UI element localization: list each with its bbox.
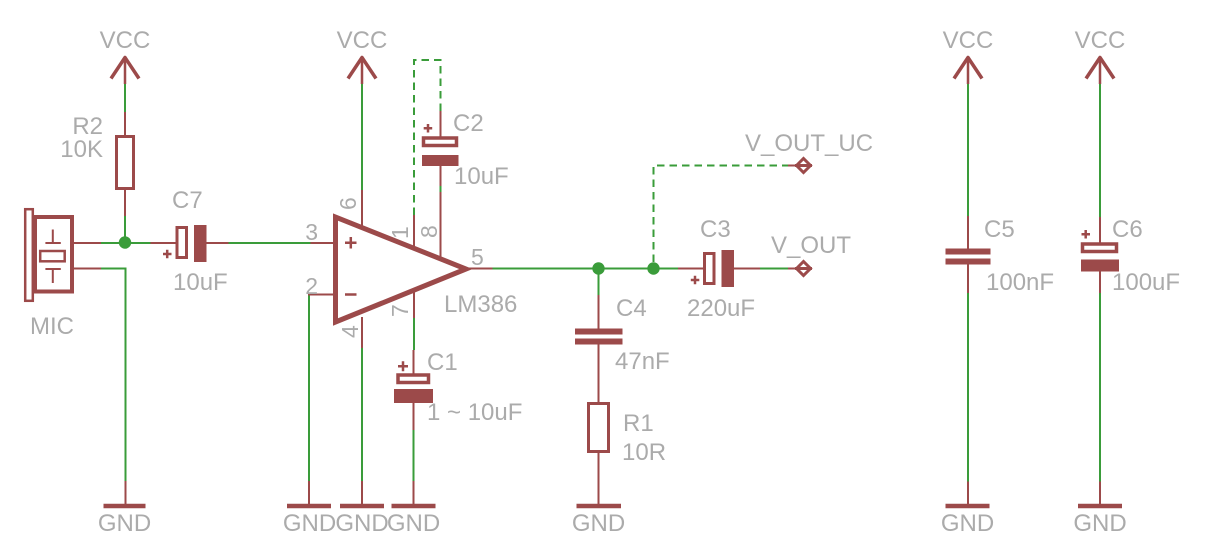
wire C1 to GND xyxy=(413,430,415,481)
capacitor C7 (polarized, horizontal) xyxy=(151,225,229,262)
node junction A (output / C4) xyxy=(592,262,604,274)
power VCC symbol 2 (above opamp) xyxy=(337,27,388,84)
svg-text:8: 8 xyxy=(416,225,442,238)
svg-text:GND: GND xyxy=(572,510,625,537)
wire pin7 to C1 xyxy=(413,318,415,350)
svg-text:MIC: MIC xyxy=(30,313,74,340)
pin 5 output stub xyxy=(468,268,493,270)
wire pin4 to GND xyxy=(361,348,363,481)
wire pin5 to junction A xyxy=(493,268,599,270)
svg-text:C7: C7 xyxy=(172,187,203,214)
svg-text:VCC: VCC xyxy=(1075,27,1126,54)
ground GND (pin4) xyxy=(335,481,388,537)
wire C7 to opamp pin3 xyxy=(229,242,311,244)
svg-text:V_OUT_UC: V_OUT_UC xyxy=(745,130,873,157)
svg-text:C1: C1 xyxy=(427,349,458,376)
svg-text:7: 7 xyxy=(387,304,413,317)
svg-text:VCC: VCC xyxy=(337,27,388,54)
pin 4 stub xyxy=(361,317,363,348)
svg-text:GND: GND xyxy=(387,510,440,537)
node junction R2/MIC/C7 xyxy=(119,236,131,248)
resistor R2 xyxy=(117,112,134,216)
power VCC symbol 3 (C5 branch) xyxy=(943,27,994,84)
ground GND (pin2) xyxy=(283,481,336,537)
svg-text:10R: 10R xyxy=(622,439,666,466)
svg-text:C3: C3 xyxy=(700,216,731,243)
pin symbol V_OUT_UC xyxy=(788,159,812,173)
resistor R1 xyxy=(589,404,609,505)
wire MIC pin2 down to GND xyxy=(101,269,126,482)
svg-text:10K: 10K xyxy=(60,136,103,163)
wire junction to C7 xyxy=(125,242,151,244)
svg-text:VCC: VCC xyxy=(943,27,994,54)
wire junction A to junction B xyxy=(599,268,654,270)
wire VCC1 to R2 xyxy=(124,84,126,112)
capacitor C4 (non-polarized, vertical) xyxy=(575,295,623,402)
svg-text:5: 5 xyxy=(471,244,484,270)
wire C2 to pin8 xyxy=(440,186,442,192)
svg-text:C5: C5 xyxy=(984,216,1015,243)
svg-text:V_OUT: V_OUT xyxy=(771,232,851,259)
ground GND (C5) xyxy=(941,482,994,538)
ground GND (R1) xyxy=(572,506,625,537)
ground GND (mic branch) xyxy=(98,481,151,537)
ground GND (C1) xyxy=(387,481,440,537)
capacitor C2 (polarized, vertical) xyxy=(422,107,459,186)
wire VCC3 to C5 xyxy=(967,84,969,216)
wire C5 to GND xyxy=(967,293,969,482)
svg-text:100nF: 100nF xyxy=(986,269,1054,296)
wire pin2 to GND xyxy=(308,296,310,482)
pin 6 stub xyxy=(361,190,363,226)
capacitor C5 (non-polarized, vertical) xyxy=(946,216,991,293)
svg-text:1 ~ 10uF: 1 ~ 10uF xyxy=(427,399,522,426)
svg-text:3: 3 xyxy=(305,219,318,245)
wire C6 to GND xyxy=(1099,293,1101,482)
wire R2 to junction xyxy=(124,216,126,243)
pin 1 stub xyxy=(413,215,415,248)
svg-text:100uF: 100uF xyxy=(1112,269,1180,296)
pin 3 stub xyxy=(311,242,337,244)
svg-text:1: 1 xyxy=(387,226,413,239)
svg-text:R1: R1 xyxy=(623,410,654,437)
svg-text:C2: C2 xyxy=(453,110,484,137)
wire VCC4 to C6 xyxy=(1099,84,1101,217)
dashed wire junction B to V_OUT_UC xyxy=(654,166,789,263)
svg-text:2: 2 xyxy=(305,273,318,299)
svg-text:LM386: LM386 xyxy=(444,291,517,318)
svg-text:C6: C6 xyxy=(1112,216,1143,243)
wire MIC pin1 to junction xyxy=(101,242,125,244)
svg-text:GND: GND xyxy=(283,510,336,537)
pin 7 stub xyxy=(413,289,415,318)
wire VCC2 to pin6 xyxy=(361,84,363,190)
svg-text:47nF: 47nF xyxy=(615,348,670,375)
op-amp U1 LM386 triangle xyxy=(336,217,467,322)
svg-text:C4: C4 xyxy=(616,295,647,322)
dashed wire pin1 to C2 plus xyxy=(414,60,441,215)
svg-text:10uF: 10uF xyxy=(454,163,509,190)
svg-text:6: 6 xyxy=(335,197,361,210)
ground GND (C6) xyxy=(1073,482,1126,538)
wire C3 to V_OUT xyxy=(760,268,788,270)
wire junction B to C3 xyxy=(654,268,679,270)
capacitor C6 (polarized, vertical) xyxy=(1081,217,1119,293)
svg-text:GND: GND xyxy=(941,510,994,537)
svg-text:VCC: VCC xyxy=(100,27,151,54)
pin 2 stub xyxy=(309,295,336,297)
power VCC symbol 1 (top-left) xyxy=(100,27,151,84)
pin 8 stub xyxy=(440,192,442,259)
svg-text:GND: GND xyxy=(335,510,388,537)
power VCC symbol 4 (C6 branch) xyxy=(1075,27,1126,84)
node junction B (output / V_OUT_UC tap) xyxy=(647,262,659,274)
svg-text:GND: GND xyxy=(1073,510,1126,537)
microphone MIC xyxy=(25,209,101,301)
svg-text:220uF: 220uF xyxy=(687,295,755,322)
svg-text:10uF: 10uF xyxy=(173,269,228,296)
svg-text:GND: GND xyxy=(98,510,151,537)
capacitor C3 (polarized, horizontal) xyxy=(678,250,760,287)
capacitor C1 (polarized, vertical) xyxy=(394,350,433,430)
pin symbol V_OUT xyxy=(788,262,812,276)
wire junction A down to C4 xyxy=(598,269,600,296)
svg-text:4: 4 xyxy=(337,325,363,338)
